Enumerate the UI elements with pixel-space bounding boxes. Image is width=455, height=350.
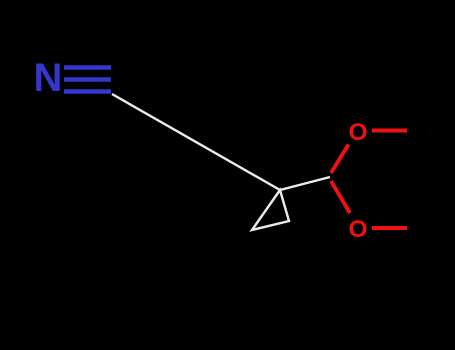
bond C1 to acetal carbon CH: [280, 177, 330, 190]
O-CH3 bond (lower methyl): [372, 226, 407, 230]
svg-text:O: O: [349, 119, 368, 146]
C-O bond to upper methoxy oxygen: [331, 145, 349, 174]
cyclopropane ring below C1: [252, 190, 289, 230]
svg-text:O: O: [349, 216, 368, 243]
svg-text:N: N: [34, 56, 63, 100]
C-O bond to lower methoxy oxygen: [331, 181, 350, 213]
nitrile triple bond C#N: [64, 68, 111, 92]
O-CH3 bond (upper methyl): [372, 129, 407, 133]
wire bond from nitrile carbon to ring carbon C1: [112, 94, 280, 190]
